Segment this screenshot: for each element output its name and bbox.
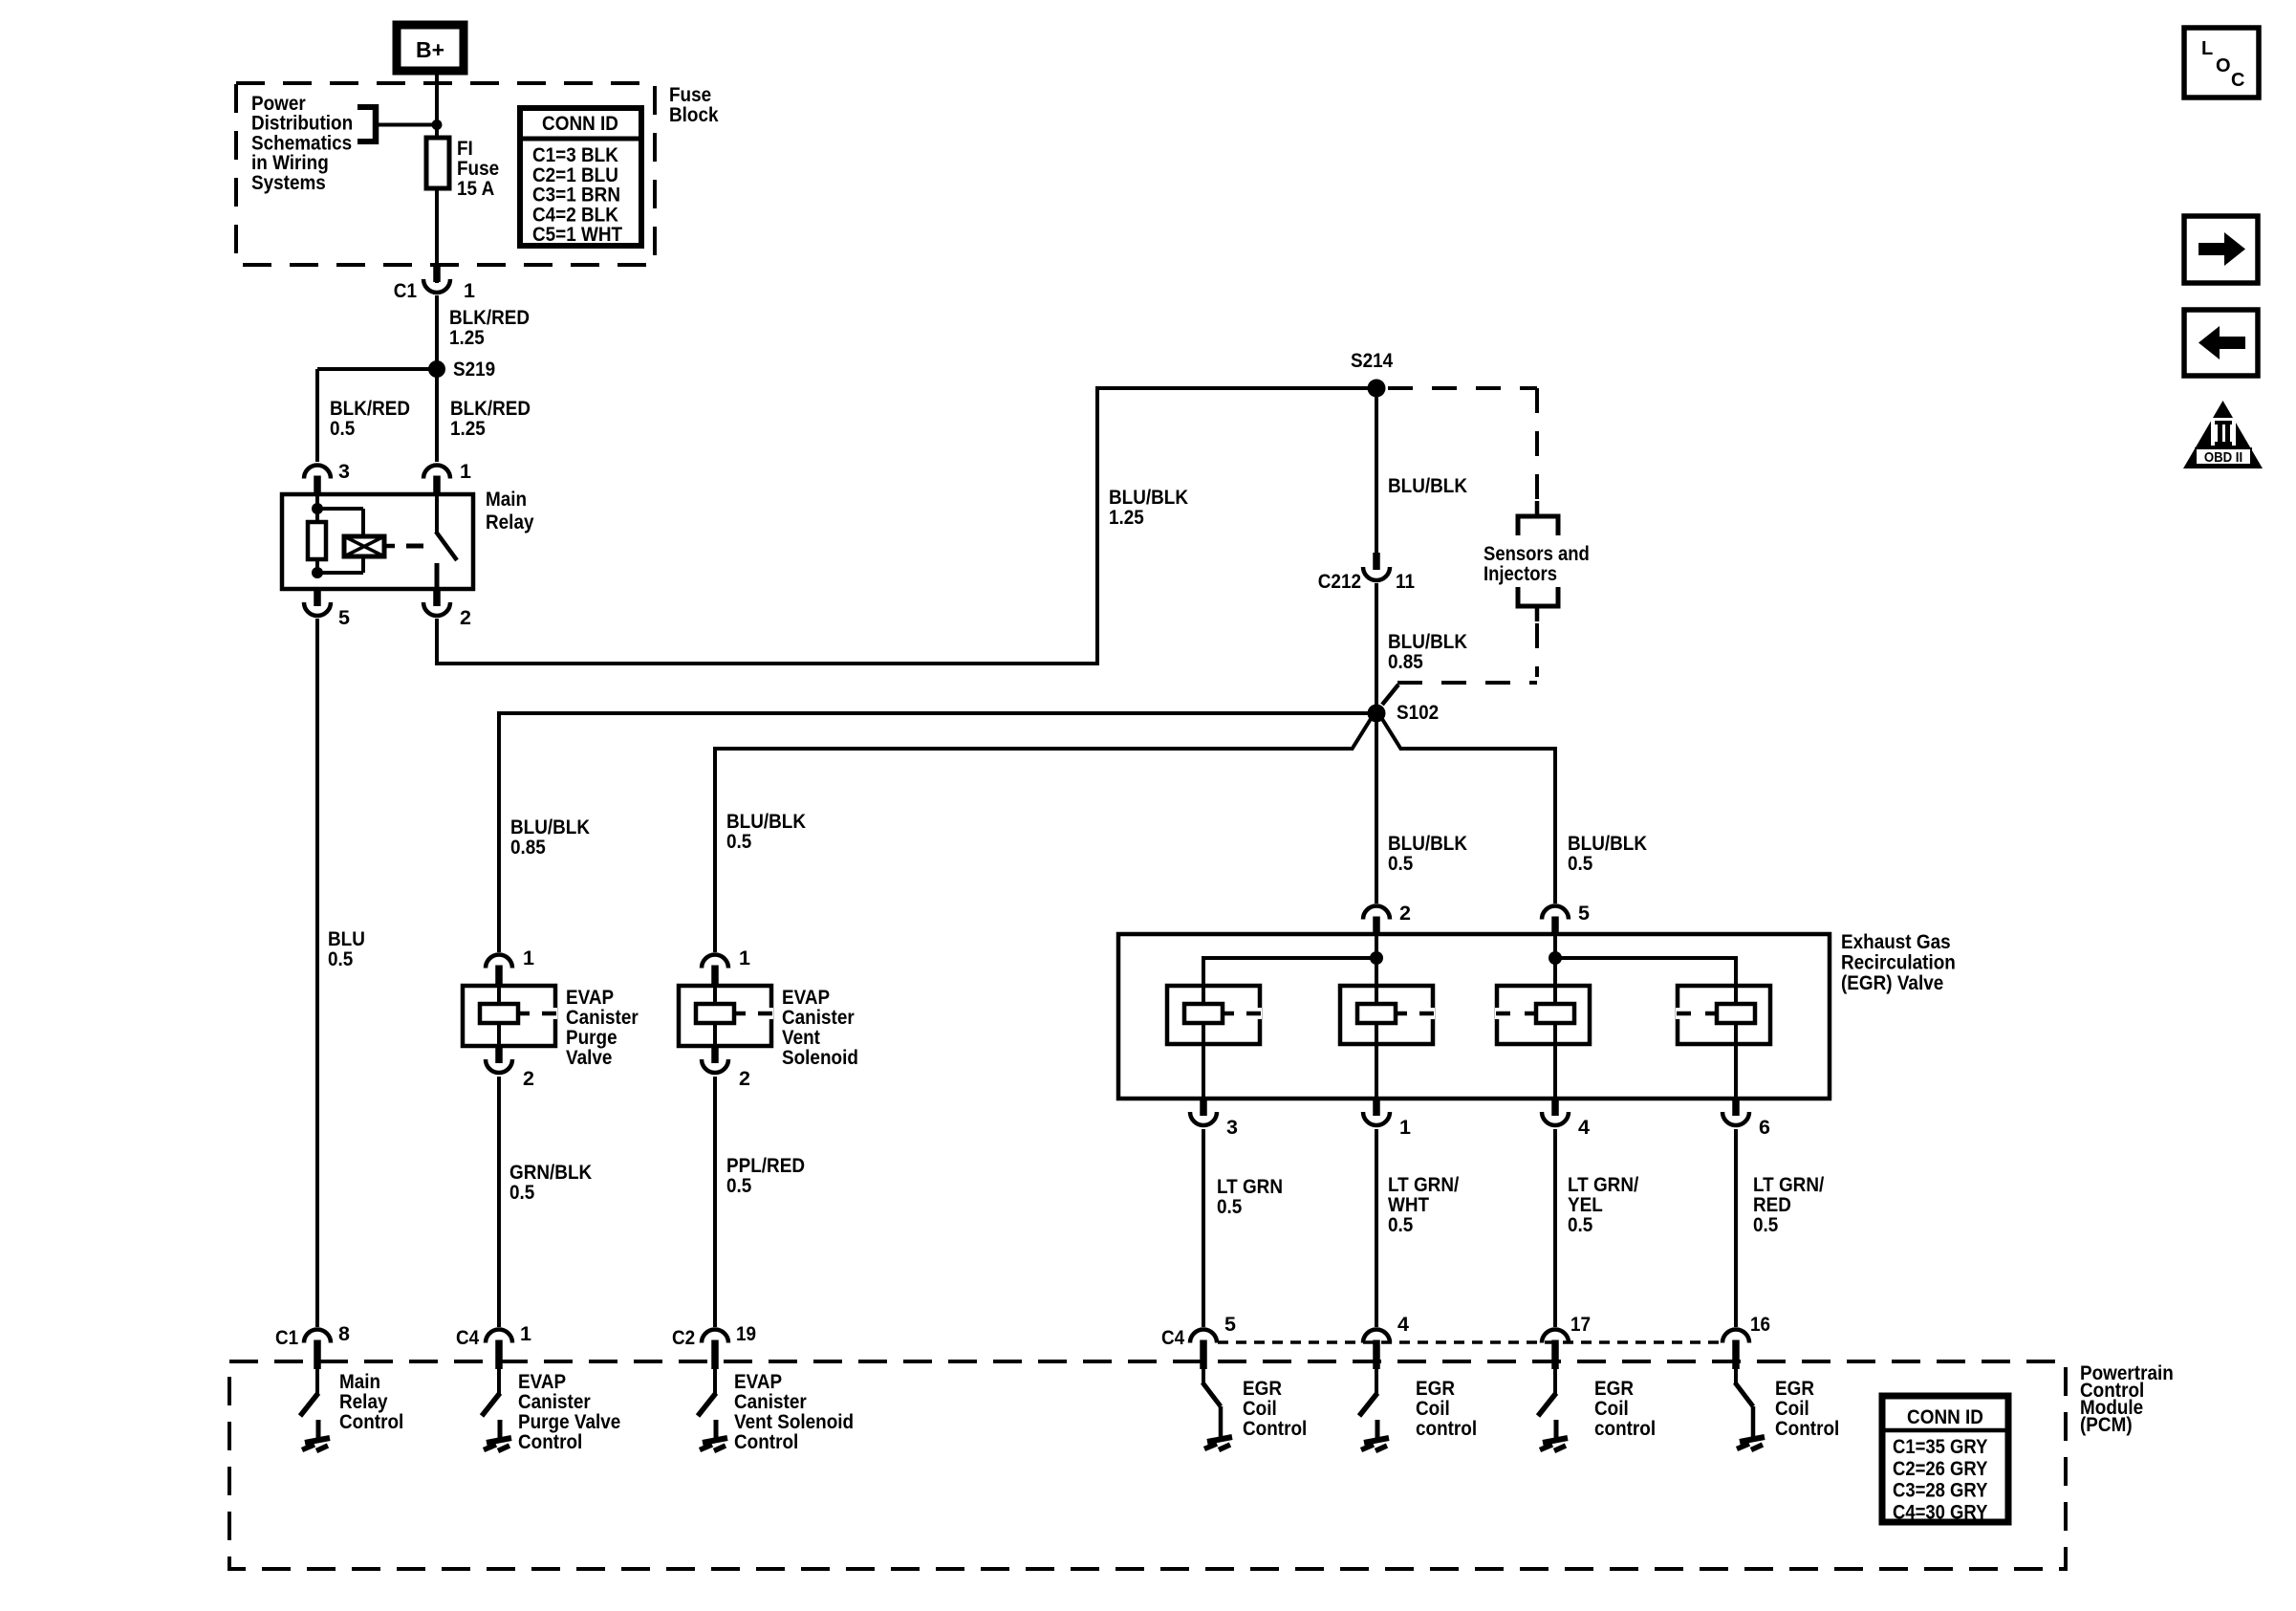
svg-text:BLU/BLK: BLU/BLK: [1109, 487, 1188, 509]
svg-text:1.25: 1.25: [1109, 507, 1144, 529]
svg-text:Purge: Purge: [566, 1027, 617, 1049]
svg-text:control: control: [1416, 1418, 1477, 1440]
svg-text:1: 1: [464, 279, 475, 302]
svg-text:16: 16: [1750, 1314, 1770, 1336]
svg-text:17: 17: [1570, 1314, 1591, 1336]
svg-text:BLK/RED: BLK/RED: [330, 398, 410, 420]
svg-text:5: 5: [1224, 1313, 1236, 1336]
svg-text:control: control: [1594, 1418, 1656, 1440]
svg-text:1.25: 1.25: [449, 327, 485, 349]
svg-text:0.5: 0.5: [726, 1175, 751, 1197]
svg-text:Fuse: Fuse: [457, 158, 499, 180]
svg-text:B+: B+: [416, 37, 444, 62]
svg-text:LT GRN/: LT GRN/: [1388, 1174, 1460, 1196]
svg-text:O: O: [2216, 55, 2231, 76]
svg-text:1: 1: [460, 460, 471, 483]
svg-text:CONN ID: CONN ID: [1907, 1406, 1983, 1428]
svg-text:EVAP: EVAP: [734, 1371, 782, 1393]
svg-text:C1: C1: [275, 1327, 298, 1349]
svg-text:Canister: Canister: [734, 1391, 807, 1413]
svg-text:0.5: 0.5: [1217, 1196, 1242, 1218]
svg-text:C5=1 WHT: C5=1 WHT: [532, 224, 623, 246]
svg-text:PPL/RED: PPL/RED: [726, 1155, 805, 1177]
svg-text:(EGR) Valve: (EGR) Valve: [1841, 972, 1943, 994]
svg-text:Coil: Coil: [1775, 1398, 1809, 1420]
svg-text:2: 2: [523, 1067, 534, 1090]
svg-text:BLU/BLK: BLU/BLK: [726, 811, 806, 833]
svg-text:Injectors: Injectors: [1484, 563, 1557, 585]
svg-text:2: 2: [460, 606, 471, 629]
svg-text:BLK/RED: BLK/RED: [450, 398, 531, 420]
svg-text:5: 5: [1578, 902, 1590, 925]
svg-text:C4: C4: [456, 1327, 480, 1349]
svg-text:FI: FI: [457, 138, 473, 160]
svg-text:BLU/BLK: BLU/BLK: [1388, 475, 1467, 497]
svg-text:Control: Control: [1243, 1418, 1307, 1440]
svg-text:EGR: EGR: [1243, 1378, 1282, 1400]
svg-text:11: 11: [1396, 571, 1415, 593]
svg-text:1: 1: [523, 947, 534, 969]
svg-text:4: 4: [1397, 1313, 1409, 1336]
svg-text:WHT: WHT: [1388, 1194, 1430, 1216]
svg-text:Coil: Coil: [1594, 1398, 1629, 1420]
svg-text:EVAP: EVAP: [782, 987, 830, 1009]
svg-text:EVAP: EVAP: [518, 1371, 566, 1393]
svg-text:LT GRN: LT GRN: [1217, 1176, 1283, 1198]
svg-text:RED: RED: [1753, 1194, 1791, 1216]
svg-text:Recirculation: Recirculation: [1841, 951, 1956, 973]
svg-text:0.5: 0.5: [1568, 853, 1592, 875]
svg-text:BLU/BLK: BLU/BLK: [1568, 833, 1647, 855]
svg-text:0.5: 0.5: [1753, 1214, 1778, 1236]
svg-text:L: L: [2201, 38, 2213, 59]
svg-text:Coil: Coil: [1416, 1398, 1450, 1420]
svg-text:Systems: Systems: [251, 172, 326, 194]
svg-text:C3=28 GRY: C3=28 GRY: [1893, 1480, 1987, 1502]
svg-text:EVAP: EVAP: [566, 987, 614, 1009]
svg-text:BLU: BLU: [328, 928, 365, 950]
svg-text:OBD II: OBD II: [2204, 448, 2242, 465]
svg-text:6: 6: [1759, 1116, 1770, 1139]
svg-text:Control: Control: [339, 1411, 403, 1433]
svg-text:0.5: 0.5: [1388, 853, 1413, 875]
svg-text:S102: S102: [1397, 702, 1439, 724]
svg-text:EGR: EGR: [1594, 1378, 1634, 1400]
svg-text:Fuse: Fuse: [669, 84, 711, 106]
svg-text:8: 8: [338, 1322, 350, 1345]
svg-text:2: 2: [739, 1067, 750, 1090]
svg-text:Relay: Relay: [339, 1391, 388, 1413]
svg-text:3: 3: [1226, 1116, 1238, 1139]
svg-text:BLU/BLK: BLU/BLK: [1388, 631, 1467, 653]
svg-text:Sensors and: Sensors and: [1484, 543, 1590, 565]
svg-text:0.5: 0.5: [509, 1182, 534, 1204]
svg-text:0.85: 0.85: [1388, 651, 1423, 673]
svg-text:0.5: 0.5: [1388, 1214, 1413, 1236]
svg-text:Control: Control: [518, 1431, 582, 1453]
svg-text:BLK/RED: BLK/RED: [449, 307, 530, 329]
svg-text:1: 1: [739, 947, 750, 969]
svg-text:3: 3: [338, 460, 350, 483]
svg-text:1: 1: [1399, 1116, 1411, 1139]
svg-text:0.5: 0.5: [1568, 1214, 1592, 1236]
svg-text:Solenoid: Solenoid: [782, 1047, 858, 1069]
svg-text:Control: Control: [1775, 1418, 1839, 1440]
svg-text:1: 1: [520, 1322, 531, 1345]
svg-text:Vent Solenoid: Vent Solenoid: [734, 1411, 854, 1433]
svg-text:Exhaust Gas: Exhaust Gas: [1841, 931, 1951, 953]
svg-text:C4: C4: [1161, 1327, 1185, 1349]
svg-text:15 A: 15 A: [457, 178, 495, 200]
svg-text:Valve: Valve: [566, 1047, 612, 1069]
svg-text:0.85: 0.85: [510, 837, 546, 859]
svg-text:Relay: Relay: [486, 512, 534, 533]
svg-text:C2: C2: [672, 1327, 695, 1349]
svg-text:0.5: 0.5: [726, 831, 751, 853]
svg-text:Coil: Coil: [1243, 1398, 1277, 1420]
svg-text:0.5: 0.5: [330, 418, 355, 440]
svg-text:C1=35 GRY: C1=35 GRY: [1893, 1436, 1987, 1458]
svg-text:EGR: EGR: [1416, 1378, 1455, 1400]
svg-text:C4=30 GRY: C4=30 GRY: [1893, 1501, 1987, 1523]
svg-text:EGR: EGR: [1775, 1378, 1814, 1400]
svg-text:Canister: Canister: [566, 1007, 639, 1029]
svg-text:YEL: YEL: [1568, 1194, 1603, 1216]
svg-text:Main: Main: [486, 489, 527, 511]
svg-text:5: 5: [338, 606, 350, 629]
svg-text:0.5: 0.5: [328, 948, 353, 970]
svg-text:GRN/BLK: GRN/BLK: [509, 1162, 593, 1184]
svg-text:(PCM): (PCM): [2080, 1414, 2133, 1436]
svg-text:BLU/BLK: BLU/BLK: [1388, 833, 1467, 855]
svg-text:LT GRN/: LT GRN/: [1568, 1174, 1639, 1196]
svg-text:C1: C1: [394, 280, 417, 302]
svg-text:1.25: 1.25: [450, 418, 486, 440]
svg-text:S214: S214: [1351, 350, 1394, 372]
svg-text:Block: Block: [669, 104, 719, 126]
svg-text:LT GRN/: LT GRN/: [1753, 1174, 1825, 1196]
svg-text:Vent: Vent: [782, 1027, 820, 1049]
svg-text:Control: Control: [734, 1431, 798, 1453]
svg-text:Purge Valve: Purge Valve: [518, 1411, 620, 1433]
svg-text:CONN ID: CONN ID: [542, 113, 618, 135]
svg-text:Main: Main: [339, 1371, 380, 1393]
svg-text:C212: C212: [1318, 571, 1361, 593]
svg-text:4: 4: [1578, 1116, 1590, 1139]
svg-text:2: 2: [1399, 902, 1411, 925]
svg-text:C: C: [2231, 70, 2244, 91]
svg-text:C2=26 GRY: C2=26 GRY: [1893, 1458, 1987, 1480]
svg-text:Canister: Canister: [782, 1007, 855, 1029]
svg-text:19: 19: [736, 1323, 756, 1345]
svg-text:BLU/BLK: BLU/BLK: [510, 816, 590, 838]
svg-text:S219: S219: [453, 359, 495, 381]
svg-text:Canister: Canister: [518, 1391, 591, 1413]
